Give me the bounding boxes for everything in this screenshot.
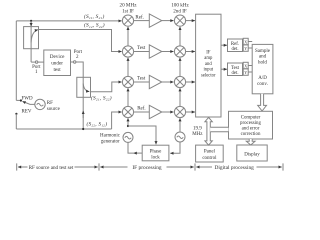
wire: arrow into coupler DC1 xyxy=(30,22,32,27)
mixer M6 (2nd IF row 2) xyxy=(174,46,185,57)
svg-text:1: 1 xyxy=(35,70,38,75)
wire: REV rail down to bottom line xyxy=(15,114,17,129)
label: 100 kHz 2nd IF xyxy=(171,2,189,14)
wire: phase lock tap from LO bus xyxy=(128,126,156,144)
label: Harmonic generator xyxy=(100,133,121,144)
wire: bottom line from REV rail to mixer M4 feed corner xyxy=(16,128,111,130)
label: (S11, S21) xyxy=(84,13,104,20)
wire: test X to sample/hold xyxy=(248,65,252,67)
svg-text:(S21, S22): (S21, S22) xyxy=(91,95,112,102)
svg-text:RF source and test set: RF source and test set xyxy=(29,165,74,171)
label: FWD xyxy=(22,96,34,101)
svg-text:Computer: Computer xyxy=(241,116,261,121)
wire: through line inside DC2 down to bottom line xyxy=(82,77,84,129)
svg-text:input: input xyxy=(203,68,213,73)
mixer M4 xyxy=(122,106,133,117)
svg-text:test: test xyxy=(53,67,61,73)
svg-text:IF processing: IF processing xyxy=(132,165,162,171)
wire: top line (a1 reference) from left rail to mixer M1 xyxy=(16,20,121,22)
mixer M1 xyxy=(122,15,133,26)
wire: LO bus col1 segment osc1 to M4 xyxy=(127,118,129,126)
svg-text:X: X xyxy=(244,63,247,68)
label: Port 2 xyxy=(74,50,83,60)
svg-text:generator: generator xyxy=(101,140,120,145)
wire: LO bus col2 segment osc2 to M8 xyxy=(179,118,181,132)
label: (S12, S22) xyxy=(84,22,105,29)
label: Port 1 xyxy=(32,65,41,75)
sample box Y (ref) xyxy=(243,45,248,52)
mixer M7 (2nd IF row 3) xyxy=(174,76,185,87)
node: Port 2 connector xyxy=(74,61,76,63)
phase lock box xyxy=(142,145,169,161)
wire: oscillator G2 to phase lock input xyxy=(170,142,180,153)
svg-text:19.9: 19.9 xyxy=(193,127,202,132)
oscillator G2 (19.9 MHz LO) xyxy=(175,132,185,142)
wire: through line from top junction into coupler DC1 down to Port 1 xyxy=(30,21,32,62)
wire: mixer M6 to selector xyxy=(186,51,195,53)
label: REV xyxy=(22,109,32,114)
wire: mixer M7 to selector xyxy=(186,81,195,83)
wire: LO bus col1 segment M3 to M2 xyxy=(127,58,129,77)
wire: amp A1 to mixer M5 xyxy=(162,20,174,22)
wire: ref Y to sample/hold xyxy=(248,47,252,49)
svg-text:IF: IF xyxy=(206,51,211,56)
bus arrow: computer to display (hollow) xyxy=(246,139,255,145)
RF source xyxy=(35,99,45,109)
dimension line: RF source and test set xyxy=(17,163,98,170)
label: (S22, S12) xyxy=(87,121,108,128)
bus arrow: selector to panel control (hollow, double headed) xyxy=(205,117,212,145)
wire: mixer M5 to selector xyxy=(186,20,195,22)
svg-text:and: and xyxy=(259,55,267,60)
wire: amp A3 to mixer M7 xyxy=(162,81,174,83)
detector: Test det. xyxy=(228,63,243,76)
wire: mixer M8 to selector xyxy=(186,111,195,113)
svg-text:(S12, S22): (S12, S22) xyxy=(84,22,105,29)
node: Port 1 connector xyxy=(35,61,37,63)
bus: branch from panel bus to computer (hollow) xyxy=(210,127,228,132)
svg-text:Test: Test xyxy=(137,46,146,51)
wire: ref X to sample/hold xyxy=(248,41,252,43)
mixer M2 xyxy=(122,46,133,57)
svg-text:1st IF: 1st IF xyxy=(122,8,134,14)
svg-text:Display: Display xyxy=(244,153,260,158)
mixer M8 (2nd IF row 4) xyxy=(174,106,185,117)
svg-text:Ref.: Ref. xyxy=(135,15,143,20)
wire: LO bus col1 segment M4 to M3 xyxy=(127,88,129,106)
svg-text:FWD: FWD xyxy=(22,96,34,101)
node: junction bottom line / port-2 line xyxy=(82,128,84,130)
wire: row4 mixer to amp xyxy=(134,111,150,113)
wire: b1 test line from DC1 to mixer M2 xyxy=(39,30,122,52)
coupler DC1 arm tap xyxy=(31,30,38,43)
panel control box xyxy=(196,145,224,162)
device under test DUT xyxy=(44,50,71,76)
wire: up arrow on port-2 through line xyxy=(82,111,84,118)
svg-text:det.: det. xyxy=(231,71,238,76)
svg-text:lock: lock xyxy=(151,156,160,161)
sample box X (test) xyxy=(243,62,248,69)
svg-text:source: source xyxy=(47,107,61,112)
svg-text:and: and xyxy=(205,62,212,67)
wire: LO bus col2 segment M7 to M6 xyxy=(179,58,181,77)
wire: DUT to port 2 xyxy=(71,61,74,63)
label: (S21, S22) xyxy=(91,95,112,102)
wire: a2 reference line from bottom line to mixer M4 xyxy=(112,112,122,129)
detector: Ref. det. xyxy=(228,39,243,52)
svg-text:det.: det. xyxy=(231,47,238,52)
wire: oscillator G1 bottom lead xyxy=(128,142,134,153)
svg-text:Y: Y xyxy=(244,46,247,51)
bus arrow: A/D to computer (hollow) xyxy=(258,94,267,111)
mixer M3 xyxy=(122,76,133,87)
svg-text:Panel: Panel xyxy=(204,150,216,155)
svg-text:(S22, S12): (S22, S12) xyxy=(87,121,108,128)
dimension line: Digital processing xyxy=(195,163,283,170)
wire: selector to Ref det xyxy=(221,44,227,46)
wire: test Y to sample/hold xyxy=(248,71,252,73)
switch blade from RF source to FWD xyxy=(23,101,35,104)
wire: b2 test line from DC2 to mixer M3 xyxy=(91,82,122,92)
wire: row2 mixer to amp xyxy=(134,51,150,53)
svg-text:A/D: A/D xyxy=(258,76,267,81)
sample and hold / A/D converter box xyxy=(252,44,273,93)
display box xyxy=(237,145,267,161)
node: junction of top line with coupler feed xyxy=(30,20,32,22)
label: 19.9 MHz xyxy=(192,127,203,138)
svg-text:X: X xyxy=(244,39,247,44)
svg-text:and error: and error xyxy=(242,127,260,132)
label: Ref. row4 xyxy=(137,107,145,112)
node: junction LO bus / phase lock tap xyxy=(127,125,129,127)
svg-text:2: 2 xyxy=(76,55,79,60)
svg-text:correction: correction xyxy=(241,132,261,137)
node: FWD contact xyxy=(20,99,22,101)
svg-text:Digital processing: Digital processing xyxy=(215,165,255,171)
svg-text:REV: REV xyxy=(22,109,32,114)
svg-text:(S11, S21): (S11, S21) xyxy=(84,13,104,20)
svg-text:Harmonic: Harmonic xyxy=(100,133,121,138)
IF amp and input selector U1 xyxy=(196,14,221,117)
svg-text:processing: processing xyxy=(240,121,261,126)
wire: port 2 into coupler DC2 xyxy=(76,62,83,77)
wire: phase lock output to oscillator G1 xyxy=(134,152,143,154)
label: Test row3 xyxy=(137,77,146,82)
coupler DC1 (transfer switch box at port 1) xyxy=(24,27,39,49)
svg-text:control: control xyxy=(202,156,217,161)
wire: row3 mixer to amp xyxy=(134,81,150,83)
wire: port 1 stub xyxy=(31,61,35,63)
svg-text:Sample: Sample xyxy=(255,49,271,54)
wire: LO bus col1 segment M2 to M1 xyxy=(127,27,129,46)
wire: LO bus col2 segment M6 to M5 xyxy=(179,27,181,46)
wire: FWD contact stub xyxy=(16,99,20,101)
amplifier A1 xyxy=(149,14,162,27)
amplifier A3 xyxy=(149,75,162,88)
oscillator G1 (harmonic generator source) xyxy=(123,132,133,142)
wire: port1 to DUT xyxy=(38,61,44,63)
svg-text:Device: Device xyxy=(50,54,65,60)
label: Ref. row1 xyxy=(135,15,143,20)
coupler DC2 (port 2 coupler box) xyxy=(77,77,91,97)
svg-text:Phase: Phase xyxy=(150,149,162,154)
svg-text:2nd IF: 2nd IF xyxy=(173,8,187,14)
wire: left FWD rail down from top line xyxy=(15,21,17,101)
label: 20 MHz 1st IF xyxy=(120,2,138,14)
wire: row1 mixer to amp xyxy=(134,20,150,22)
node: REV contact xyxy=(15,113,17,115)
wire: amp A4 to mixer M8 xyxy=(162,111,174,113)
svg-text:Y: Y xyxy=(244,70,247,75)
wire: selector to Test det xyxy=(221,68,227,70)
wire: amp A2 to mixer M6 xyxy=(162,51,174,53)
svg-text:hold: hold xyxy=(258,60,267,65)
svg-text:conv.: conv. xyxy=(257,82,268,87)
computer processing box xyxy=(229,111,273,139)
mixer M5 (2nd IF row 1) xyxy=(174,15,185,26)
svg-text:amp: amp xyxy=(204,56,213,61)
svg-text:under: under xyxy=(51,60,63,66)
svg-text:selector: selector xyxy=(201,73,216,78)
coupler DC2 arm tap xyxy=(83,84,89,92)
wire: LO bus col2 segment M8 to M7 xyxy=(179,88,181,106)
amplifier A4 xyxy=(149,105,162,118)
dimension line: IF processing xyxy=(99,163,194,170)
svg-text:Ref.: Ref. xyxy=(137,107,145,112)
label: Test row2 xyxy=(137,46,146,51)
amplifier A2 xyxy=(149,45,162,58)
svg-text:MHz: MHz xyxy=(192,132,203,137)
svg-text:RF: RF xyxy=(47,101,53,106)
svg-text:Test: Test xyxy=(137,77,146,82)
label: RF source xyxy=(47,101,61,112)
sample box Y (test) xyxy=(243,69,248,76)
sample box X (ref) xyxy=(243,38,248,45)
